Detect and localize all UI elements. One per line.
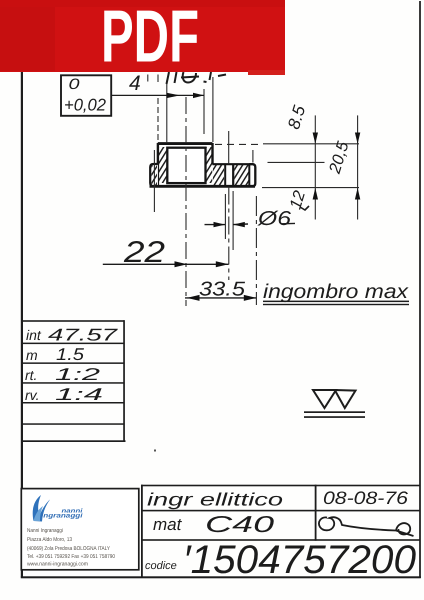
hub left edge xyxy=(157,143,159,186)
part bottom edge xyxy=(150,185,256,188)
hatch tab left xyxy=(151,165,158,185)
ext line bore-left xyxy=(166,81,168,144)
arrow tip 203 right xyxy=(193,93,204,98)
ext dashed hub-left xyxy=(157,98,159,143)
horiz ref line bottom right xyxy=(262,187,359,189)
svg-text:ingranaggi: ingranaggi xyxy=(41,513,83,520)
svg-text:1.5: 1.5 xyxy=(56,345,85,364)
dim line B vertical xyxy=(357,115,359,219)
hole edge ext right xyxy=(232,191,234,250)
top dim line xyxy=(112,94,205,96)
svg-text:1:2: 1:2 xyxy=(55,365,101,384)
svg-text:PDF: PDF xyxy=(101,0,199,78)
hole right edge xyxy=(232,164,234,186)
ext line hub right xyxy=(212,77,214,142)
ext tick hub-left top xyxy=(157,75,159,83)
logo swoosh xyxy=(33,495,50,522)
svg-text:rt.: rt. xyxy=(25,367,37,383)
svg-text:m: m xyxy=(26,347,38,363)
title block vertical divider left xyxy=(141,485,143,578)
svg-text:33.5: 33.5 xyxy=(199,279,246,301)
svg-text:Nanni Ingranaggi: Nanni Ingranaggi xyxy=(27,528,63,534)
dim 33.5 line xyxy=(185,297,256,299)
signature scribble xyxy=(319,517,414,536)
svg-text:47.57: 47.57 xyxy=(48,326,118,345)
left data table xyxy=(22,320,126,442)
surface finish double underline xyxy=(304,411,365,413)
svg-text:1:4: 1:4 xyxy=(55,385,103,404)
dim o6 leader right xyxy=(233,223,295,224)
flange top edge xyxy=(213,163,251,165)
bore axis centerline xyxy=(185,97,187,306)
title block row line 3 xyxy=(141,539,420,541)
logo label box xyxy=(21,489,139,570)
dim o6 leader left xyxy=(205,224,226,226)
tolerance box xyxy=(61,75,111,116)
part outline: hub top xyxy=(158,142,213,145)
hatch hub right wall xyxy=(206,147,213,183)
hatch flange left segment xyxy=(213,165,224,186)
title block top line xyxy=(141,485,420,487)
ext line 33.5 right xyxy=(255,196,257,305)
title block vertical divider mid xyxy=(315,485,317,541)
svg-text:Ø6: Ø6 xyxy=(257,208,292,230)
left tab outline xyxy=(150,164,158,186)
hole edge ext left xyxy=(224,194,226,239)
hole axis lower xyxy=(228,187,230,281)
dim 22 line xyxy=(103,263,229,265)
svg-text:rv.: rv. xyxy=(25,387,40,403)
PDF banner xyxy=(0,0,285,72)
svg-text:(40069) Zola Predosa BOLOGNA I: (40069) Zola Predosa BOLOGNA ITALY xyxy=(27,546,110,552)
dim line A vertical xyxy=(314,115,316,219)
speck xyxy=(154,450,156,452)
svg-text:′1504757200: ′1504757200 xyxy=(183,538,416,582)
hatch hub left wall xyxy=(159,147,167,183)
hatch flange right segment xyxy=(234,165,249,186)
tail inner edge xyxy=(248,164,250,186)
horiz dashes part-top level xyxy=(215,143,263,145)
svg-text:ingombro max: ingombro max xyxy=(263,281,409,303)
svg-text:int: int xyxy=(26,327,42,343)
svg-text:codice: codice xyxy=(145,560,177,572)
svg-text:C40: C40 xyxy=(205,511,274,537)
svg-text:Piazza Aldo Moro, 13: Piazza Aldo Moro, 13 xyxy=(27,537,72,543)
svg-text:22: 22 xyxy=(123,236,166,269)
svg-text:www.nanni-ingranaggi.com: www.nanni-ingranaggi.com xyxy=(26,561,88,567)
ext line tail xyxy=(252,150,254,163)
svg-text:08-08-76: 08-08-76 xyxy=(323,488,409,508)
svg-text:Tel. +39 051 759292 Fax +39 0: Tel. +39 051 759292 Fax +39 051 758790 xyxy=(27,554,115,560)
arrows dim line A xyxy=(313,133,318,144)
ext line through tab xyxy=(153,150,155,212)
ext tick left xyxy=(147,75,149,82)
ext line bore-right xyxy=(203,89,205,134)
arrow mid right xyxy=(167,93,181,98)
hole axis upper xyxy=(228,131,230,164)
title block row line 2 xyxy=(141,510,420,512)
hole left edge xyxy=(224,164,226,186)
horiz ref line step right xyxy=(268,161,325,163)
surface finish symbol triangles xyxy=(313,390,356,408)
tail outline rounded right xyxy=(249,164,255,186)
sheet frame right border xyxy=(419,1,421,578)
sheet frame bottom border xyxy=(21,576,421,578)
hub right edge xyxy=(211,143,213,165)
hatch tab interior xyxy=(152,166,158,186)
svg-text:0: 0 xyxy=(69,76,81,93)
svg-text:+0,02: +0,02 xyxy=(64,96,107,115)
svg-text:ingr ellittico: ingr ellittico xyxy=(147,490,283,510)
dim 33.5 arrow left xyxy=(187,295,200,301)
dim 22 arrow mid xyxy=(175,261,188,267)
horiz ref line top right xyxy=(263,143,359,145)
dim 22 arrow right xyxy=(216,261,229,267)
arrows dim line B xyxy=(355,133,360,144)
bore outline xyxy=(167,148,205,183)
sheet frame left border xyxy=(21,70,23,578)
cut-off dim text under banner xyxy=(167,72,227,84)
stray mark right of o6 xyxy=(300,206,309,210)
svg-text:mat: mat xyxy=(153,515,183,534)
dim 33.5 arrow right xyxy=(244,295,257,301)
